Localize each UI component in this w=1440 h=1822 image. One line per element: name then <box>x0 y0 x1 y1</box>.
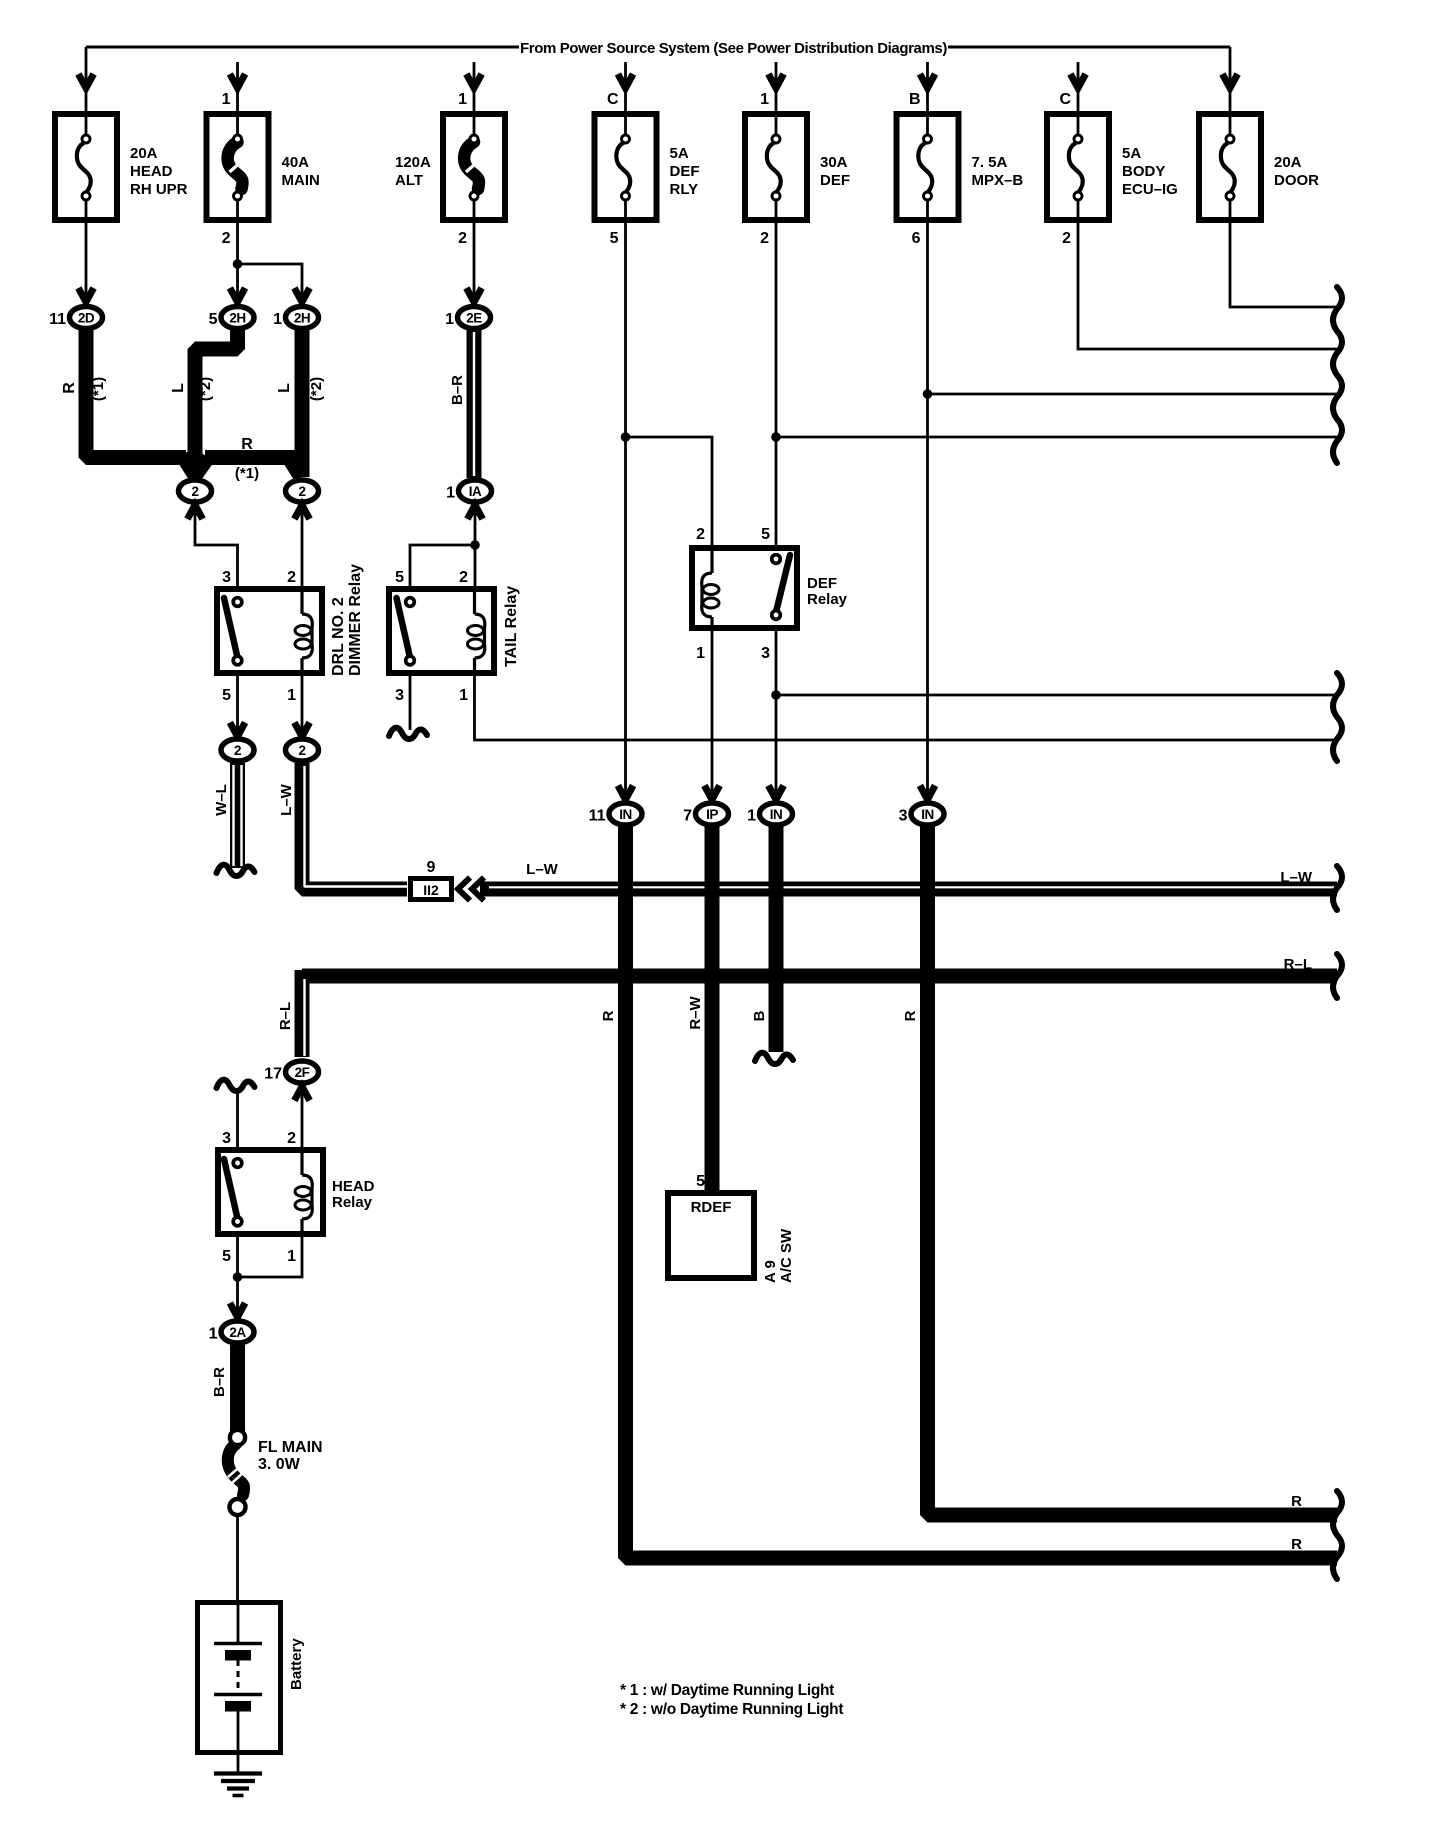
svg-text:5: 5 <box>209 311 218 328</box>
svg-text:120A: 120A <box>395 154 431 171</box>
svg-text:IA: IA <box>469 484 482 499</box>
svg-text:3: 3 <box>395 687 404 704</box>
wire - DRL pin1 to connector <box>301 673 304 739</box>
svg-text:RDEF: RDEF <box>691 1199 732 1216</box>
svg-text:* 1 : w/ Daytime Running Light: * 1 : w/ Daytime Running Light <box>620 1682 834 1699</box>
svg-text:RLY: RLY <box>670 181 699 198</box>
svg-text:(*2): (*2) <box>197 377 214 401</box>
svg-text:3. 0W: 3. 0W <box>258 1456 301 1473</box>
svg-text:1: 1 <box>760 91 769 108</box>
wire - branch to TAIL relay pin5 <box>410 545 475 588</box>
battery - Battery <box>198 1603 306 1753</box>
svg-text:1: 1 <box>459 687 468 704</box>
wire - diagonal merge into connector right <box>287 455 301 477</box>
wire B-R from 2E to IA <box>467 330 482 478</box>
node - torn edge wave fuse group <box>1333 287 1342 463</box>
coil - TAIL relay coil <box>473 592 476 614</box>
node - junction DEF feed to right <box>771 432 781 442</box>
wire - MPX-B fuse to IN connector <box>926 220 929 803</box>
svg-text:5: 5 <box>222 687 231 704</box>
wire - diagonal merge into connector left <box>182 455 196 477</box>
connector 2D pin 11 <box>49 307 102 329</box>
svg-text:BODY: BODY <box>1122 163 1165 180</box>
svg-text:3: 3 <box>222 569 231 586</box>
wire - feed into fuse <box>236 62 239 114</box>
wire - feed into fuse <box>1077 62 1080 114</box>
wire - fuse2 to connector 2H pin5 <box>236 220 239 307</box>
wire - feed into fuse <box>926 62 929 114</box>
relay - DRL NO. 2 DIMMER Relay box <box>217 589 322 673</box>
ground - open end squiggle B wire <box>755 1053 793 1064</box>
connector 2H pin 5 <box>209 307 254 329</box>
fuse 5A DEF RLY <box>595 114 700 220</box>
wire - MPX-B branch to right edge <box>928 393 1338 396</box>
svg-text:B–R: B–R <box>211 1367 228 1397</box>
connector 2F pin 17 <box>264 1061 318 1083</box>
svg-text:B: B <box>909 91 921 108</box>
svg-text:7: 7 <box>683 808 692 825</box>
svg-text:30A: 30A <box>820 154 848 171</box>
svg-text:(*1): (*1) <box>90 377 107 401</box>
wire R from IN3 to right edge <box>928 827 1338 1515</box>
svg-text:(*1): (*1) <box>235 465 259 482</box>
svg-text:5: 5 <box>610 230 619 247</box>
svg-text:IN: IN <box>921 807 934 822</box>
svg-text:2D: 2D <box>78 310 95 325</box>
wire - power feed bus from power source system <box>86 46 519 49</box>
svg-text:11: 11 <box>589 808 606 825</box>
svg-text:2: 2 <box>287 569 296 586</box>
svg-text:HEAD: HEAD <box>130 163 173 180</box>
svg-text:2: 2 <box>222 230 231 247</box>
wire R-W from IP7 to RDEF <box>705 827 720 1190</box>
connector 2A pin 1 <box>209 1321 254 1343</box>
wire - L-W bus arrows <box>458 878 470 901</box>
svg-text:3: 3 <box>761 645 770 662</box>
svg-text:2H: 2H <box>294 310 310 325</box>
node - junction below HEAD relay <box>233 1272 243 1282</box>
wire - open end to HEAD relay pin3 <box>236 1092 239 1149</box>
svg-text:ALT: ALT <box>395 172 423 189</box>
svg-text:R–L: R–L <box>1284 956 1312 973</box>
svg-text:R: R <box>902 1010 919 1021</box>
svg-text:20A: 20A <box>130 145 158 162</box>
wire - feed into fuse <box>473 62 476 114</box>
coil - DEF relay coil <box>710 551 713 573</box>
wire - IA to TAIL relay pin2 <box>474 503 477 588</box>
svg-text:L: L <box>276 383 293 393</box>
wire R (*1) from 2D <box>86 330 186 458</box>
ground - open end squiggle above HEAD relay <box>217 1080 255 1091</box>
svg-text:17: 17 <box>264 1066 282 1083</box>
connector 2 (W-L) <box>221 739 254 761</box>
svg-text:2: 2 <box>298 743 305 758</box>
wire B from IN1 to open end <box>769 827 784 1052</box>
svg-text:RH UPR: RH UPR <box>130 181 188 198</box>
svg-text:DEF: DEF <box>820 172 850 189</box>
svg-text:DEF: DEF <box>807 575 837 592</box>
svg-text:1: 1 <box>222 91 231 108</box>
svg-text:7. 5A: 7. 5A <box>972 154 1008 171</box>
wire - HEAD pin5 and pin1 join <box>236 1234 239 1320</box>
wire - TAIL pin1 to right edge <box>475 673 1338 740</box>
svg-text:L–W: L–W <box>1280 869 1313 886</box>
svg-text:1: 1 <box>209 1326 218 1343</box>
svg-text:1: 1 <box>747 808 756 825</box>
connector II2 pin 9 <box>411 879 452 900</box>
connector junction 2 (left) <box>179 480 212 502</box>
wire - DEF relay pin3 to IN connector <box>775 631 778 803</box>
svg-text:Battery: Battery <box>288 1638 305 1690</box>
svg-text:ECU–IG: ECU–IG <box>1122 181 1178 198</box>
ground - open end squiggle TAIL pin3 <box>389 728 427 739</box>
coil - DRL relay coil <box>300 592 303 614</box>
wire L (*2) from 2H pin5 jog <box>195 330 238 477</box>
connector IA pin 1 <box>446 480 491 502</box>
switch - HEAD relay contacts <box>224 1159 238 1219</box>
connector IN pin 1 <box>747 803 792 825</box>
svg-text:R: R <box>1291 1536 1302 1553</box>
svg-text:R: R <box>600 1010 617 1021</box>
node - torn edge wave relay group <box>1333 673 1342 761</box>
svg-text:2E: 2E <box>466 310 482 325</box>
svg-text:II2: II2 <box>423 882 439 898</box>
svg-text:1: 1 <box>458 91 467 108</box>
svg-text:2: 2 <box>191 484 198 499</box>
wire R from IN11 to right edge bottom <box>626 827 1338 1558</box>
svg-text:2F: 2F <box>295 1065 310 1080</box>
wire - connector2 right to DRL relay pin2 <box>301 503 304 588</box>
wire - DEF relay pin1 to IP connector <box>711 631 714 803</box>
wire - 30A DEF fuse to DEF relay pin5 <box>775 220 778 547</box>
fuse 40A MAIN <box>207 114 320 220</box>
svg-text:FL MAIN: FL MAIN <box>258 1439 323 1456</box>
svg-text:2H: 2H <box>229 310 245 325</box>
svg-text:3: 3 <box>222 1130 231 1147</box>
fuse 7.5A MPX-B <box>897 114 1024 220</box>
svg-text:5: 5 <box>222 1248 231 1265</box>
fuse 20A HEAD RH UPR <box>55 114 188 220</box>
svg-text:Relay: Relay <box>807 591 848 608</box>
svg-text:2: 2 <box>760 230 769 247</box>
fuse 5A BODY ECU-IG <box>1047 114 1178 220</box>
wire L-W bus to right edge <box>480 882 1337 897</box>
switch - TAIL relay contacts <box>397 598 411 658</box>
svg-text:From Power Source System (See: From Power Source System (See Power Dist… <box>520 40 947 57</box>
svg-text:5A: 5A <box>1122 145 1141 162</box>
svg-text:C: C <box>607 91 619 108</box>
wire - branch to connector 2H pin1 <box>238 264 303 307</box>
svg-text:DEF: DEF <box>670 163 700 180</box>
node - torn edge wave L-W <box>1333 866 1342 910</box>
wire - pin3 branch to right edge <box>776 694 1337 697</box>
wire - 2F to HEAD relay pin2 <box>301 1084 304 1149</box>
svg-text:5: 5 <box>761 526 770 543</box>
svg-text:2: 2 <box>1062 230 1071 247</box>
fuse 120A ALT <box>395 114 505 220</box>
wire - BODY ECU-IG fuse to right edge <box>1078 220 1337 349</box>
node - torn edge wave R pair <box>1333 1491 1342 1579</box>
node - torn edge wave R-L <box>1333 954 1342 998</box>
svg-text:11: 11 <box>49 311 66 328</box>
svg-text:B–R: B–R <box>449 375 466 405</box>
svg-text:5: 5 <box>696 1173 705 1190</box>
wire - DEF feed to right edge <box>776 436 1337 439</box>
fuse 20A DOOR <box>1199 114 1319 220</box>
svg-text:5: 5 <box>395 569 404 586</box>
wire - fuse1 to connector 2D <box>85 220 88 307</box>
svg-text:R: R <box>61 382 78 394</box>
wire - branch to DEF relay pin2 <box>626 437 713 547</box>
relay - DEF Relay box <box>692 548 797 628</box>
svg-text:3: 3 <box>899 808 908 825</box>
svg-text:L: L <box>170 383 187 393</box>
ground - battery ground <box>214 1755 262 1796</box>
connector 2 (L-W) <box>286 739 319 761</box>
svg-text:1: 1 <box>287 1248 296 1265</box>
svg-text:6: 6 <box>912 230 921 247</box>
svg-text:1: 1 <box>445 311 454 328</box>
wire B-R from 2A to FL MAIN <box>230 1344 245 1432</box>
wire - diagonal from merge up right <box>194 458 208 478</box>
svg-text:1: 1 <box>287 687 296 704</box>
svg-text:2: 2 <box>696 526 705 543</box>
wire - fuse3 ALT to connector 2E <box>473 220 476 307</box>
svg-text:L–W: L–W <box>526 861 559 878</box>
relay - TAIL Relay box <box>389 589 494 673</box>
svg-text:(*2): (*2) <box>308 377 325 401</box>
node - junction 40A MAIN split <box>233 259 243 269</box>
wire - feed into fuse <box>1229 47 1232 114</box>
wire - connector2 left to DRL relay pin3 <box>195 503 238 588</box>
fuse 30A DEF <box>745 114 850 220</box>
svg-text:L–W: L–W <box>278 783 295 816</box>
wire - feed into fuse <box>775 62 778 114</box>
svg-text:2: 2 <box>234 743 241 758</box>
svg-text:IN: IN <box>619 807 632 822</box>
wire R (*1) middle segment <box>205 450 302 465</box>
wire - DEF RLY fuse to IN connector <box>624 220 627 803</box>
coil - HEAD relay coil <box>300 1153 303 1175</box>
node - junction DEF relay pin3 branch <box>771 690 781 700</box>
node - junction DEF RLY branch <box>621 432 631 442</box>
svg-text:2: 2 <box>287 1130 296 1147</box>
component RDEF A9 A/C SW <box>668 1173 795 1283</box>
svg-text:W–L: W–L <box>213 784 230 816</box>
svg-text:2: 2 <box>298 484 305 499</box>
svg-text:DOOR: DOOR <box>1274 172 1319 189</box>
svg-text:1: 1 <box>696 645 705 662</box>
svg-text:HEAD: HEAD <box>332 1178 375 1195</box>
wire W-L from connector to open end <box>230 763 245 868</box>
svg-text:* 2 : w/o Daytime Running Ligh: * 2 : w/o Daytime Running Light <box>620 1701 843 1718</box>
svg-text:R: R <box>1291 1493 1302 1510</box>
connector 2E pin 1 <box>445 307 490 329</box>
svg-text:C: C <box>1059 91 1071 108</box>
wire - feed into fuse <box>624 62 627 114</box>
svg-text:MAIN: MAIN <box>282 172 320 189</box>
connector 2H pin 1 <box>273 307 318 329</box>
svg-text:Relay: Relay <box>332 1194 373 1211</box>
wire - DRL pin5 to connector <box>236 673 239 739</box>
svg-text:R–L: R–L <box>277 1002 294 1030</box>
wire - FL MAIN to battery <box>236 1515 239 1602</box>
svg-text:IP: IP <box>706 807 718 822</box>
switch - DEF relay contacts <box>776 555 790 612</box>
switch - DRL relay contacts <box>224 598 238 658</box>
svg-text:R: R <box>241 436 253 453</box>
ground - open end squiggle W-L <box>217 865 255 876</box>
wire - feed into fuse <box>85 47 88 114</box>
svg-text:2: 2 <box>458 230 467 247</box>
wire - TAIL pin3 to open end <box>409 673 412 730</box>
connector IP pin 7 <box>683 803 728 825</box>
svg-text:20A: 20A <box>1274 154 1302 171</box>
connector IN pin 11 <box>589 803 642 825</box>
wire R-L bus <box>302 969 1337 984</box>
node - junction MPX-B branch <box>923 389 933 399</box>
svg-text:TAIL Relay: TAIL Relay <box>503 586 520 667</box>
svg-text:2A: 2A <box>229 1325 246 1340</box>
relay - HEAD Relay box <box>218 1150 323 1234</box>
svg-text:MPX–B: MPX–B <box>972 172 1024 189</box>
svg-text:1: 1 <box>273 311 282 328</box>
connector IN pin 3 <box>899 803 944 825</box>
connector junction 2 (right) <box>286 480 319 502</box>
svg-text:40A: 40A <box>282 154 310 171</box>
node - junction TAIL relay coil feed <box>470 540 480 550</box>
svg-text:B: B <box>751 1010 768 1021</box>
wire L (*2) from 2H pin1 <box>295 330 310 477</box>
wire - arrows into row-2 connectors <box>187 505 202 519</box>
svg-text:R–W: R–W <box>687 995 704 1029</box>
wire - DOOR fuse to right edge <box>1230 220 1337 307</box>
svg-text:5A: 5A <box>670 145 689 162</box>
svg-text:2: 2 <box>459 569 468 586</box>
svg-text:IN: IN <box>770 807 783 822</box>
fuse FL MAIN 3.0W <box>228 1430 323 1515</box>
svg-text:9: 9 <box>427 859 436 876</box>
wire L-W from connector to II2 <box>302 763 407 889</box>
wire R-L drop to 2F <box>295 970 310 1057</box>
svg-text:1: 1 <box>446 485 455 502</box>
